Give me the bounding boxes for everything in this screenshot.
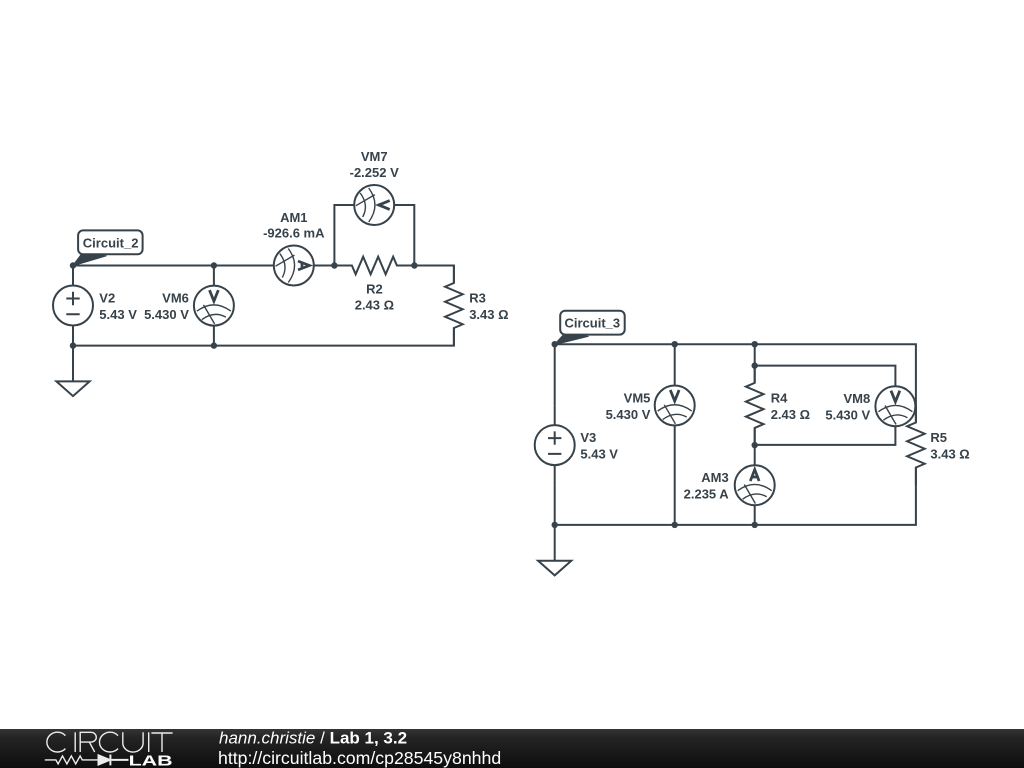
svg-text:V3: V3: [580, 430, 596, 445]
svg-text:3.43 Ω: 3.43 Ω: [469, 307, 508, 322]
svg-text:VM7: VM7: [361, 149, 388, 164]
svg-text:5.43 V: 5.43 V: [580, 447, 618, 462]
svg-text:Circuit_2: Circuit_2: [83, 235, 139, 250]
svg-text:VM8: VM8: [843, 391, 870, 406]
svg-text:LAB: LAB: [129, 752, 173, 768]
svg-text:R3: R3: [469, 291, 486, 306]
svg-text:2.235 A: 2.235 A: [684, 487, 730, 502]
svg-text:VM5: VM5: [624, 391, 651, 406]
svg-text:R5: R5: [930, 430, 947, 445]
svg-text:VM6: VM6: [162, 290, 189, 305]
svg-text:3.43 Ω: 3.43 Ω: [930, 447, 969, 462]
svg-text:2.43 Ω: 2.43 Ω: [771, 407, 810, 422]
svg-text:R4: R4: [771, 390, 788, 405]
svg-text:R2: R2: [366, 281, 383, 296]
svg-text:V2: V2: [99, 290, 115, 305]
svg-text:-2.252 V: -2.252 V: [350, 165, 399, 180]
svg-text:5.43 V: 5.43 V: [99, 307, 137, 322]
svg-text:5.430 V: 5.430 V: [144, 307, 189, 322]
svg-text:AM3: AM3: [701, 470, 728, 485]
svg-text:5.430 V: 5.430 V: [825, 408, 870, 423]
svg-text:hann.christie / Lab 1, 3.2: hann.christie / Lab 1, 3.2: [219, 729, 407, 748]
svg-text:2.43 Ω: 2.43 Ω: [355, 297, 394, 312]
svg-text:http://circuitlab.com/cp28545y: http://circuitlab.com/cp28545y8nhhd: [218, 748, 501, 768]
svg-text:Circuit_3: Circuit_3: [565, 316, 621, 331]
svg-text:-926.6 mA: -926.6 mA: [263, 226, 325, 241]
svg-text:AM1: AM1: [280, 210, 307, 225]
svg-text:5.430 V: 5.430 V: [606, 407, 651, 422]
